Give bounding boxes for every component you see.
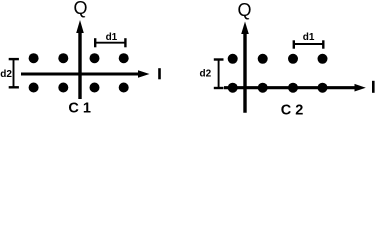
Q axis (C2) xyxy=(241,22,249,113)
svg-text:d1: d1 xyxy=(106,32,118,43)
svg-text:Q: Q xyxy=(73,0,87,18)
dot C1 row2 col4 xyxy=(119,83,129,93)
svg-text:Q: Q xyxy=(237,0,251,20)
dot C1 row2 col1 xyxy=(29,83,39,93)
I axis (C1) xyxy=(21,70,150,78)
dot C2 row2 col3 xyxy=(288,83,298,93)
dot C2 row2 col4 xyxy=(318,83,328,93)
dot C2 row1 col4 xyxy=(318,54,328,64)
dot C2 row1 col2 xyxy=(258,54,268,64)
label I (C1) xyxy=(158,68,161,79)
svg-text:d2: d2 xyxy=(200,68,212,79)
Q axis (C1) xyxy=(76,20,84,99)
dot C2 row1 col1 xyxy=(228,54,238,64)
dot C2 row2 col1 xyxy=(228,83,238,93)
svg-text:d1: d1 xyxy=(303,32,315,43)
dimension d2 (C1) xyxy=(9,59,19,87)
dimension d1 (C2) xyxy=(294,40,324,48)
dot C2 row2 col2 xyxy=(258,83,268,93)
dot C1 row1 col1 xyxy=(29,53,39,63)
dot C1 row1 col4 xyxy=(119,53,129,63)
svg-text:C 2: C 2 xyxy=(281,102,304,118)
dimension d1 (C1) xyxy=(95,38,125,47)
svg-text:d2: d2 xyxy=(0,69,12,80)
svg-text:C 1: C 1 xyxy=(68,101,91,117)
dot C1 row2 col3 xyxy=(90,83,100,93)
dot C1 row1 col3 xyxy=(90,53,100,63)
dot C2 row1 col3 xyxy=(288,54,298,64)
dimension d2 (C2) xyxy=(214,60,224,89)
I axis (C2) xyxy=(224,84,366,92)
dot C1 row1 col2 xyxy=(58,53,68,63)
dot C1 row2 col2 xyxy=(58,83,68,93)
label I (C2) xyxy=(372,81,375,93)
